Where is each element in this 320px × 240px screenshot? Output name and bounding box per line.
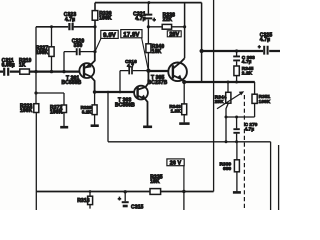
transistor T301 collector (to bottom) <box>84 74 94 92</box>
node junction x148.4 y26.8 <box>147 25 150 28</box>
svg-text:1K: 1K <box>19 62 26 68</box>
node junction x184.6 y26.8 <box>183 25 186 28</box>
label C303 4.7u <box>242 55 255 64</box>
label R339 680 <box>220 162 232 172</box>
resistor R340 <box>146 44 151 53</box>
label T301 BC559B <box>62 75 82 86</box>
transistor T301 circle <box>79 63 94 78</box>
node junction x226 y117 <box>225 116 228 119</box>
svg-text:9.9V: 9.9V <box>103 33 116 39</box>
resistor R319 <box>20 69 30 74</box>
wire R327 branch <box>51 27 53 72</box>
svg-text:BC559B: BC559B <box>62 80 82 86</box>
svg-text:10K: 10K <box>150 179 160 185</box>
transistor T303 circle <box>134 86 148 100</box>
svg-text:25K: 25K <box>215 99 224 104</box>
label 26V box upper <box>167 31 181 38</box>
transistor T303 emitter (down, NPN arrow) <box>138 96 148 126</box>
label R344 25K <box>215 95 227 105</box>
resistor R339 branch <box>236 142 238 192</box>
potentiometer R344 <box>226 92 231 103</box>
resistor R339 <box>234 160 239 172</box>
wire collector T305 up to 26.8 node <box>184 3 186 59</box>
wire thick base T305 <box>148 70 168 72</box>
label C316 4.7 <box>125 59 137 68</box>
label R327 100K <box>36 45 49 56</box>
transistor T305 emitter (down, NPN arrow) <box>173 75 184 82</box>
transistor T305 circle <box>168 63 187 82</box>
node junction x183.9 y191.5 <box>182 190 185 193</box>
label R343 1.3K <box>169 104 181 114</box>
svg-text:26 V: 26 V <box>170 161 182 167</box>
transistor T305 base bar <box>172 65 174 78</box>
svg-text:2.2K: 2.2K <box>242 70 253 75</box>
wire C320 bridge <box>64 52 95 72</box>
resistor R372 <box>62 105 67 113</box>
node junction x236.6 y82 <box>235 81 238 84</box>
svg-text:C315: C315 <box>131 205 144 210</box>
capacitor C325 (series, polarized) <box>264 46 267 55</box>
wire y27 left branch <box>36 26 95 28</box>
svg-text:22K: 22K <box>163 17 173 23</box>
resistor R330 <box>92 11 98 21</box>
node junction x50 main wire <box>50 70 53 73</box>
label C325 4.7u <box>260 33 273 44</box>
wire x278.6 <box>278 145 280 210</box>
node junction x64 main wire <box>62 70 65 73</box>
resistor R327 <box>49 47 54 57</box>
svg-text:+: + <box>118 196 121 202</box>
resistor R335 <box>150 189 161 195</box>
potentiometer R344 branch <box>227 82 229 92</box>
capacitor C316 <box>129 67 132 74</box>
node junction main x148.4 y70.6 <box>146 69 150 73</box>
label C311 0.68u <box>2 58 15 69</box>
label R335 10K <box>150 175 163 186</box>
node junction x108 y92 <box>107 91 110 94</box>
capacitor C311 <box>4 68 8 76</box>
resistor R329 <box>92 105 97 115</box>
label R372 100K <box>50 105 63 116</box>
node junction x201.6 y51 <box>200 49 204 53</box>
svg-text:100K: 100K <box>20 108 33 114</box>
wire main input y71.6 <box>0 70 79 72</box>
node junction x226 y141.8 <box>225 140 228 143</box>
node junction x236.6 y141.8 <box>235 140 238 143</box>
transistor T303 collector (up) <box>138 71 149 90</box>
svg-text:26V: 26V <box>169 32 179 38</box>
wire thick emitter rail y82 <box>184 81 255 83</box>
ground bar R339 <box>233 191 241 194</box>
svg-text:4.7µ: 4.7µ <box>242 59 252 64</box>
svg-text:+: + <box>153 18 156 24</box>
resistor R351 branch <box>254 82 256 117</box>
transistor T301 emitter (to top, PNP arrow) <box>84 52 95 68</box>
svg-text:0.68µ: 0.68µ <box>2 62 15 68</box>
svg-text:4.7µ: 4.7µ <box>260 37 270 43</box>
label C323 4.7u <box>64 12 77 23</box>
transistor T301 base bar <box>83 64 85 77</box>
wire rail y117 <box>226 116 255 118</box>
label C320 330 <box>72 38 85 49</box>
transistor T303 base bar <box>136 87 138 98</box>
resistor R329 branch <box>94 92 96 125</box>
svg-text:4.7µ: 4.7µ <box>65 17 75 23</box>
capacitor C279 <box>236 117 238 142</box>
svg-text:100K: 100K <box>99 15 112 21</box>
transistor T305 collector (up) <box>173 58 185 68</box>
ground bar R329 <box>91 124 99 127</box>
resistor R338 (horizontal) <box>148 26 184 28</box>
node junction x36 main wire <box>34 70 37 73</box>
resistor R318 branch <box>89 192 91 209</box>
svg-text:4.7: 4.7 <box>127 63 134 68</box>
node junction x95 y26.8 <box>93 25 96 28</box>
wire x226 down <box>225 117 227 142</box>
node junction x236.6 y51 <box>235 49 238 52</box>
wire bottom rail y191.5 <box>36 191 213 193</box>
resistor R318 <box>88 196 93 204</box>
potentiometer R344 wiper arrow <box>217 93 242 109</box>
resistor R343 branch <box>183 82 185 122</box>
label C279 4.7u <box>245 122 258 131</box>
capacitor C303 (polarized) <box>236 51 238 66</box>
resistor R323 <box>34 104 39 113</box>
node junction emitter T305 <box>182 80 186 84</box>
wire C316 bridge <box>120 71 148 92</box>
svg-text:17.8V: 17.8V <box>123 32 139 38</box>
wire vertical x95 upper <box>94 3 96 52</box>
wire x183.9 below <box>183 192 185 211</box>
svg-text:R318: R318 <box>77 198 90 204</box>
svg-text:BC550B: BC550B <box>115 102 135 108</box>
label 26V box lower with pointer <box>167 159 184 192</box>
label T303 BC550B <box>115 98 135 109</box>
label R340 10K <box>152 44 165 55</box>
capacitor C315 (polarized) <box>122 201 129 203</box>
ground bar T303 emitter <box>143 126 152 129</box>
node junction x236.6 y117 <box>235 116 238 119</box>
wire vertical x201.6 <box>201 3 203 82</box>
capacitor C320 <box>77 48 80 55</box>
node junction x51.5 y26.8 <box>50 25 53 28</box>
capacitor C323 <box>69 23 72 30</box>
node junction x120 y92 <box>119 91 122 94</box>
node junction collector T301 <box>93 90 97 94</box>
capacitor C315 branch <box>124 190 127 193</box>
label R345 2.2K <box>242 66 254 76</box>
label C321 4.7u <box>133 11 146 22</box>
wire thick y92 <box>95 91 135 93</box>
node junction x95 y51.6 <box>93 50 96 53</box>
ground bar R343 <box>179 122 189 125</box>
svg-text:4.7µ: 4.7µ <box>135 16 145 22</box>
resistor R351 <box>252 94 257 103</box>
label R323 100K <box>20 104 33 115</box>
node junction on top rail <box>147 1 150 4</box>
dashed separator line <box>243 95 245 210</box>
wire top supply rail <box>95 2 202 4</box>
label R319 1K <box>19 58 32 69</box>
label R330 100K <box>99 11 112 22</box>
label T305 BC237B <box>148 75 168 86</box>
wire y141.8 long <box>108 92 271 210</box>
wire thick output rail y51 <box>202 50 280 52</box>
label R329 8.2K <box>81 105 93 114</box>
svg-text:100K: 100K <box>259 99 271 104</box>
svg-text:10K: 10K <box>152 49 162 55</box>
svg-text:680: 680 <box>223 166 231 171</box>
svg-text:100K: 100K <box>36 50 49 56</box>
label 17.8V box with pointer <box>121 30 148 70</box>
svg-text:+: + <box>258 45 261 50</box>
capacitor C321 (polarized, vertical) <box>147 3 149 27</box>
resistor R345 <box>234 66 239 76</box>
label 9.9V box with pointer <box>95 30 118 50</box>
svg-text:330: 330 <box>74 43 83 49</box>
label R351 100K <box>259 94 271 104</box>
node junction x36 y93 <box>34 91 37 94</box>
ground bar R372 <box>60 126 68 129</box>
svg-text:100K: 100K <box>50 109 63 115</box>
label R338 22K <box>163 13 176 24</box>
wire vertical x213.6 long <box>213 0 215 192</box>
svg-text:4.7µ: 4.7µ <box>245 127 255 132</box>
svg-text:1.3K: 1.3K <box>171 109 182 114</box>
resistor R340 branch <box>147 27 149 71</box>
wire R372 branch <box>36 93 64 126</box>
node junction R318 <box>89 190 92 193</box>
svg-text:8.2K: 8.2K <box>82 109 92 114</box>
wire vertical x36 long <box>35 27 37 210</box>
node junction x228 y82 <box>227 81 230 84</box>
resistor R343 <box>182 104 187 115</box>
svg-text:BC237B: BC237B <box>148 80 168 86</box>
